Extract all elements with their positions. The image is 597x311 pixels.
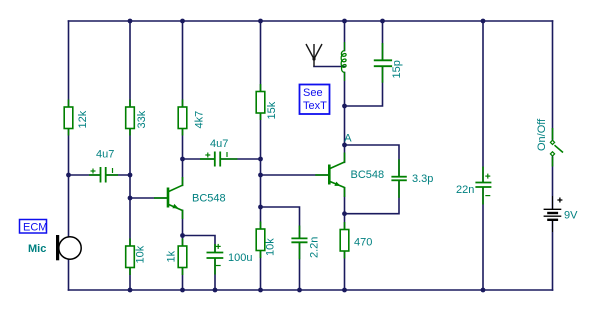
junction (299.5,290) xyxy=(297,288,302,293)
junction (182.5,21) xyxy=(180,19,185,24)
wire 15p branch bottom xyxy=(345,67,383,107)
wire 100u bottom xyxy=(214,259,216,291)
svg-text:4u7: 4u7 xyxy=(96,149,114,161)
svg-text:2.2n: 2.2n xyxy=(309,237,321,258)
junction (130,290) xyxy=(128,288,133,293)
svg-text:33k: 33k xyxy=(136,110,148,128)
wire Q1 emitter to 100u top xyxy=(183,236,216,253)
wire antenna tap xyxy=(314,66,345,68)
junction (260.5,21) xyxy=(258,19,263,24)
resistor 4k7 xyxy=(178,100,205,136)
wire column 33k/10k xyxy=(129,21,131,290)
wire bottom rail xyxy=(69,289,553,291)
resistor 10k right xyxy=(256,222,276,259)
resistor 10k left xyxy=(126,239,147,276)
wire Q2 base xyxy=(261,174,329,176)
wire column tank top xyxy=(344,21,346,51)
svg-text:TexT: TexT xyxy=(303,100,327,112)
wire 4u7 coupling row right xyxy=(221,158,261,160)
junction (344.5,21) xyxy=(342,19,347,24)
junction (344.5,106) xyxy=(342,104,347,109)
wire 4u7 coupling row left xyxy=(183,158,215,160)
junction (260.5,290) xyxy=(258,288,263,293)
junction (260.5,159) xyxy=(258,157,263,162)
capacitor 4u7 coupling (electrolytic) xyxy=(200,138,237,167)
transistor Q1 BC548 xyxy=(154,177,226,219)
svg-text:1k: 1k xyxy=(166,250,178,262)
capacitor 2.2n xyxy=(291,226,320,260)
resistor 1k xyxy=(166,239,187,276)
capacitor 100u (electrolytic) xyxy=(207,244,253,275)
wire 4u7 input row left xyxy=(69,174,101,176)
wire 2.2n branch bottom xyxy=(299,243,301,290)
svg-text:BC548: BC548 xyxy=(192,193,226,205)
svg-text:A: A xyxy=(344,132,352,144)
junction (344.5,213.7) xyxy=(342,211,347,216)
wire column 15k/10k xyxy=(260,21,262,290)
svg-text:ECM: ECM xyxy=(23,222,47,234)
junction (130,21) xyxy=(128,19,133,24)
svg-text:12k: 12k xyxy=(77,110,89,128)
svg-text:10k: 10k xyxy=(265,238,277,256)
wire right column to switch xyxy=(552,21,554,141)
svg-text:BC548: BC548 xyxy=(351,169,385,181)
junction (182.5,290) xyxy=(180,288,185,293)
svg-text:Mic: Mic xyxy=(28,243,46,255)
label See TexT box xyxy=(300,85,330,115)
resistor 470 xyxy=(340,222,372,259)
svg-text:10k: 10k xyxy=(135,245,147,263)
capacitor 22n (electrolytic) xyxy=(456,167,491,205)
wire coil to Q2 collector xyxy=(344,73,346,163)
svg-text:9V: 9V xyxy=(564,210,578,222)
wire column 22n bottom xyxy=(482,187,484,290)
junction (182.5,235.5) xyxy=(180,233,185,238)
wire Q1 emitter column / 1k xyxy=(182,210,184,290)
junction (182.5,159) xyxy=(180,157,185,162)
junction (130,175) xyxy=(128,173,133,178)
wire column 4k7 / Q1 collector xyxy=(182,21,184,185)
junction (344.5,290) xyxy=(342,288,347,293)
junction (483,290) xyxy=(481,288,486,293)
resistor 12k xyxy=(64,100,89,136)
antenna xyxy=(306,44,322,67)
svg-text:See: See xyxy=(303,87,323,99)
capacitor 3.3p xyxy=(391,159,433,198)
svg-text:100u: 100u xyxy=(228,252,252,264)
battery 9V xyxy=(544,196,579,232)
resistor 15k xyxy=(256,84,278,120)
junction (382.5,21) xyxy=(380,19,385,24)
junction (260.5,175) xyxy=(258,173,263,178)
wire Q2 emitter / 470 column xyxy=(344,188,346,290)
wire top rail xyxy=(69,20,553,22)
svg-text:3.3p: 3.3p xyxy=(412,173,433,185)
svg-text:15k: 15k xyxy=(266,101,278,119)
wire battery to bottom xyxy=(552,221,554,290)
wire 2.2n branch top xyxy=(261,207,300,238)
svg-text:On/Off: On/Off xyxy=(536,118,548,151)
svg-text:4k7: 4k7 xyxy=(194,111,206,129)
svg-text:470: 470 xyxy=(354,237,372,249)
junction (344.5,145) xyxy=(342,143,347,148)
wire 15p branch top xyxy=(382,21,384,60)
junction (260.5,207) xyxy=(258,205,263,210)
wire 3.3p top xyxy=(345,145,400,176)
wire left column xyxy=(68,21,70,290)
wire 4u7 input row right xyxy=(106,174,130,176)
capacitor 4u7 input (electrolytic) xyxy=(89,149,118,183)
microphone ECM xyxy=(56,235,81,260)
label ECM box xyxy=(20,220,48,234)
svg-text:22n: 22n xyxy=(456,184,474,196)
junction (215,290) xyxy=(213,288,218,293)
capacitor 15p xyxy=(374,43,403,83)
svg-text:4u7: 4u7 xyxy=(210,138,228,150)
inductor L1 (coil) xyxy=(341,42,346,81)
junction (130,198) xyxy=(128,196,133,201)
wire column 22n top xyxy=(482,21,484,182)
wire Q1 base xyxy=(130,197,167,199)
junction (483,21) xyxy=(481,19,486,24)
svg-text:15p: 15p xyxy=(391,60,403,78)
switch On/Off xyxy=(536,118,563,167)
wire 3.3p bottom xyxy=(345,181,400,214)
resistor 33k xyxy=(126,100,148,136)
transistor Q2 BC548 xyxy=(315,153,384,198)
wire switch to battery xyxy=(552,155,554,209)
junction (68.5,175) xyxy=(66,173,71,178)
